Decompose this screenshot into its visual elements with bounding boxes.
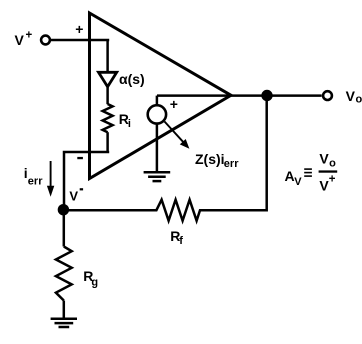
svg-text:+: + <box>75 21 83 37</box>
svg-text:Z(s)i: Z(s)i <box>195 151 225 167</box>
svg-text:A: A <box>285 168 295 184</box>
svg-text:V: V <box>346 88 356 104</box>
svg-text:V: V <box>15 32 25 48</box>
svg-text:+: + <box>170 96 178 112</box>
svg-text:o: o <box>356 94 362 106</box>
svg-text:V: V <box>69 188 78 203</box>
svg-text:err: err <box>28 176 43 188</box>
svg-text:V: V <box>319 151 329 167</box>
svg-text:+: + <box>26 29 33 41</box>
svg-text:V: V <box>294 176 302 188</box>
svg-text:f: f <box>179 235 183 247</box>
svg-text:g: g <box>91 276 98 288</box>
svg-text:+: + <box>329 174 336 186</box>
svg-text:i: i <box>128 118 131 130</box>
svg-text:o: o <box>329 157 336 169</box>
svg-text:α(s): α(s) <box>119 71 145 87</box>
svg-text:err: err <box>224 158 239 170</box>
